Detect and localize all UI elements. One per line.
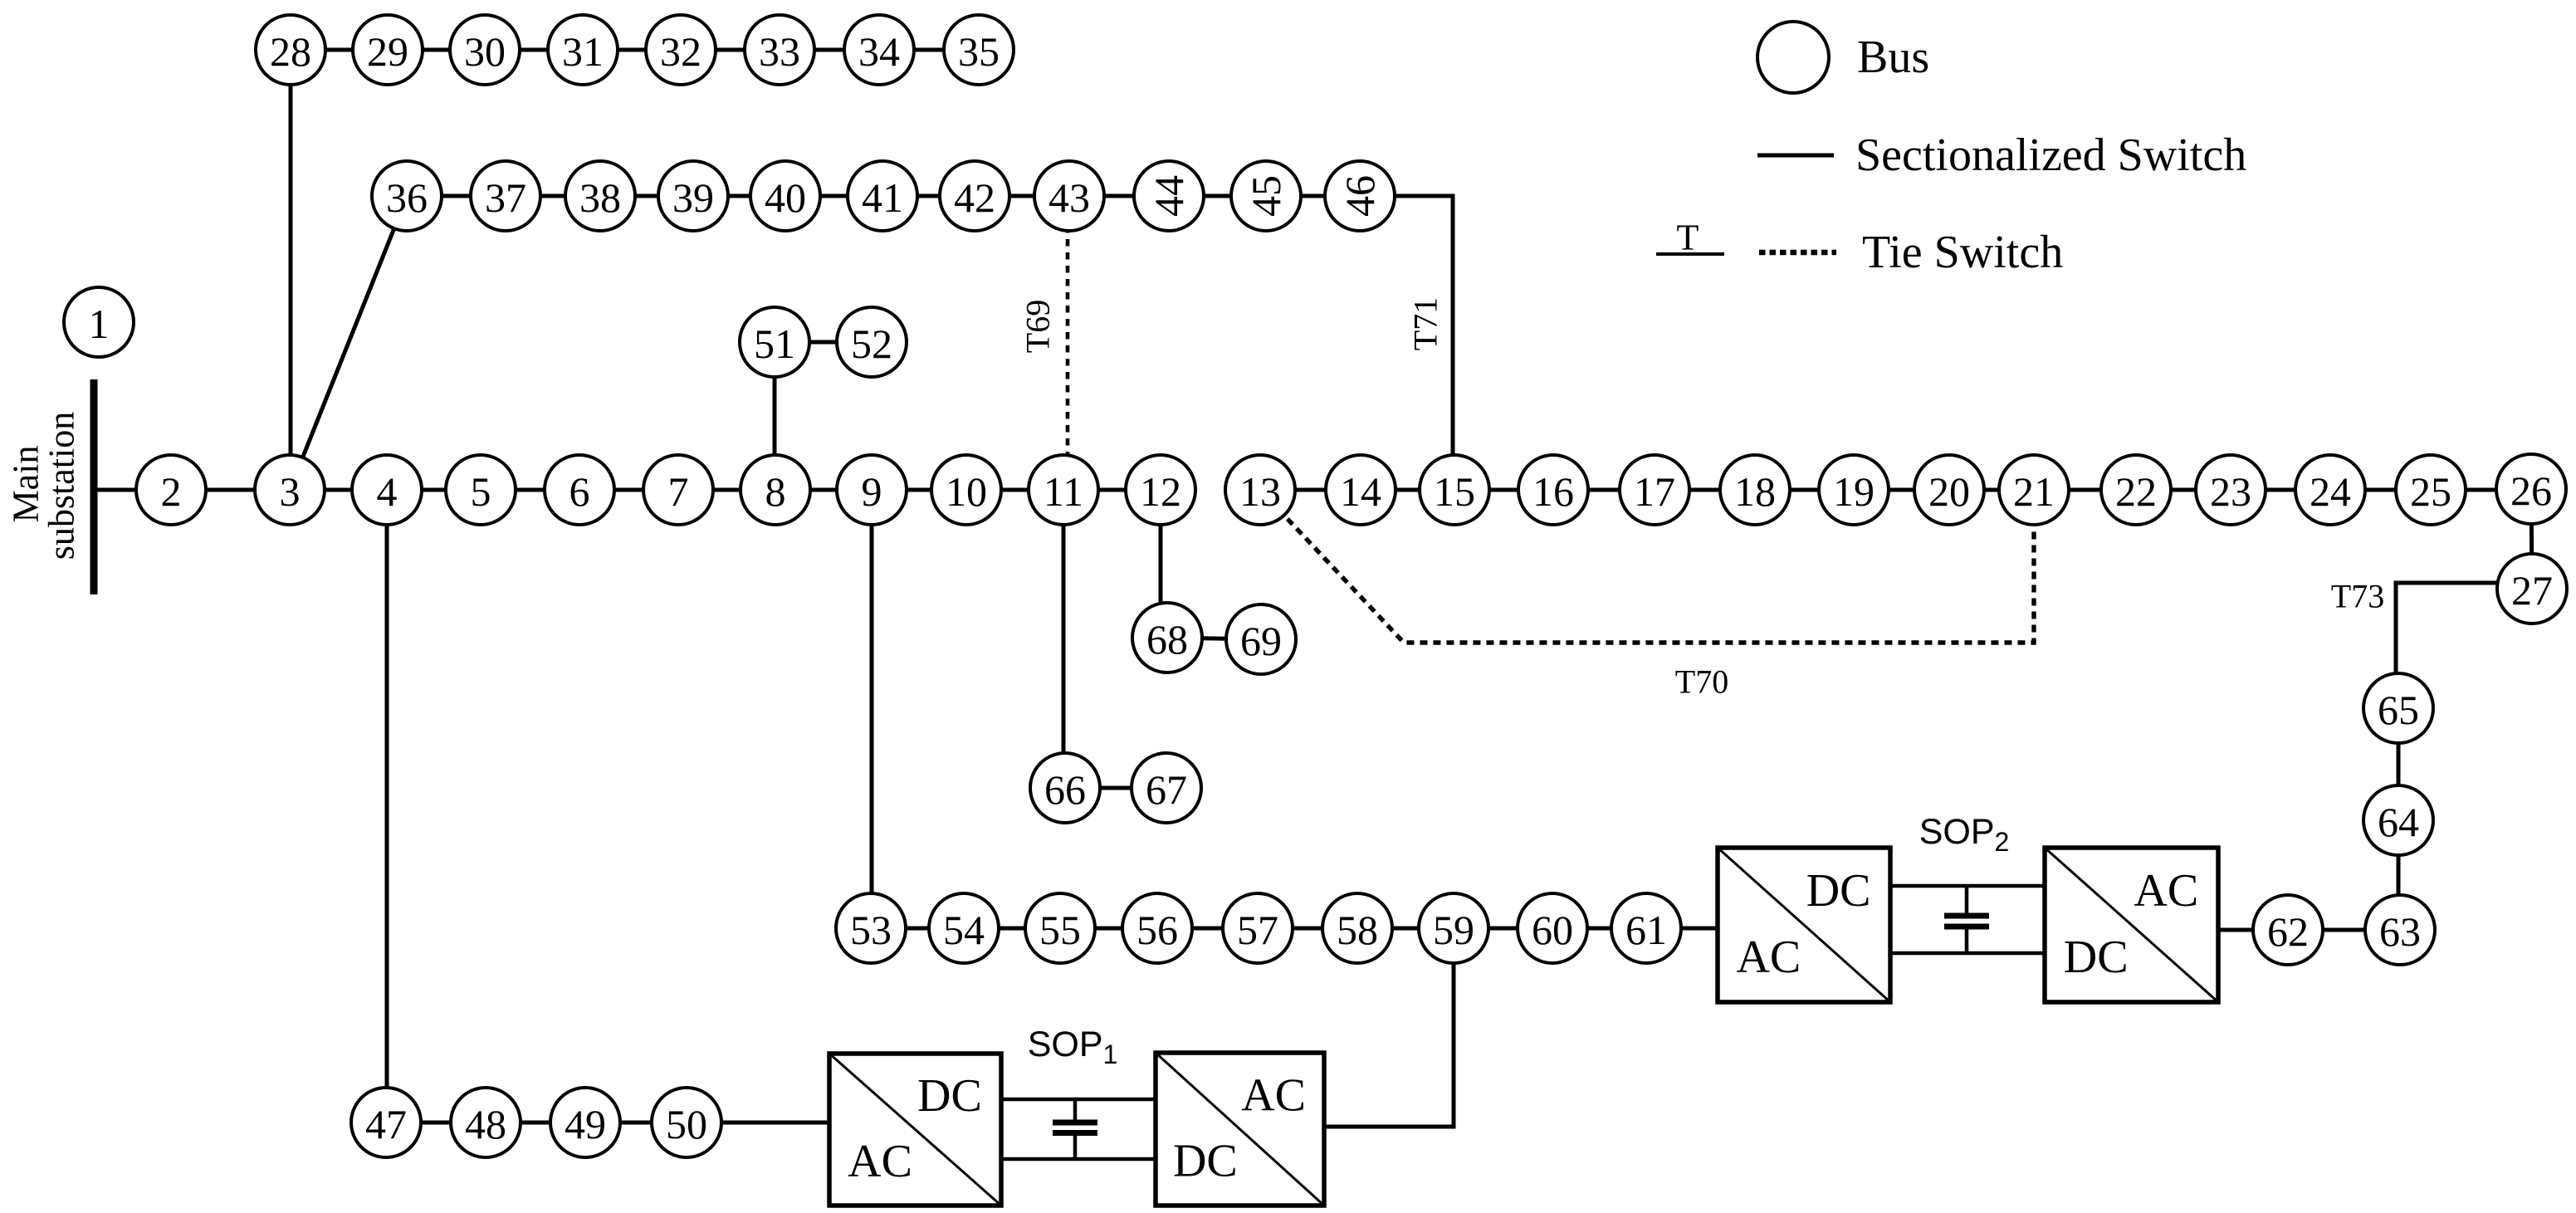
svg-text:T69: T69 (1019, 300, 1057, 353)
bus 65 (2363, 673, 2433, 743)
wire branch bus36-bus46 (407, 194, 1360, 198)
converter SOP2 left AC/DC (1718, 848, 1890, 1002)
bus 14 (1326, 455, 1396, 525)
svg-text:T: T (1677, 218, 1699, 258)
svg-text:35: 35 (958, 28, 1000, 75)
tie switch T70 dashed bus13-bus21 (1260, 490, 2034, 643)
svg-text:2: 2 (161, 468, 182, 515)
svg-text:49: 49 (565, 1101, 606, 1147)
svg-text:54: 54 (943, 907, 985, 953)
bus 42 (940, 161, 1009, 231)
svg-text:DC: DC (2064, 932, 2129, 983)
svg-text:32: 32 (660, 28, 701, 75)
bus 6 (545, 455, 614, 525)
bus 31 (548, 15, 618, 85)
bus 23 (2196, 455, 2266, 525)
bus 18 (1720, 455, 1790, 525)
bus 1 (64, 287, 134, 357)
svg-text:41: 41 (862, 174, 903, 221)
svg-text:9: 9 (862, 468, 882, 515)
bus 48 (451, 1088, 521, 1157)
bus 32 (646, 15, 716, 85)
wire bus28-bus3 vertical (289, 50, 293, 490)
svg-text:44: 44 (1146, 175, 1192, 217)
svg-text:3: 3 (280, 468, 301, 515)
SOP1 dc link capacitor (1073, 1099, 1078, 1120)
bus 20 (1914, 455, 1984, 525)
svg-text:T73: T73 (2331, 578, 2384, 615)
svg-text:30: 30 (464, 28, 506, 75)
bus 59 (1419, 893, 1488, 963)
legend tie switch (1759, 250, 1836, 256)
bus 37 (471, 161, 540, 231)
bus 58 (1322, 893, 1392, 963)
bus 60 (1518, 893, 1587, 963)
svg-text:56: 56 (1136, 907, 1178, 953)
svg-text:68: 68 (1146, 616, 1188, 663)
bus 50 (652, 1088, 721, 1157)
bus 62 (2253, 895, 2323, 965)
bus 19 (1819, 455, 1889, 525)
svg-text:DC: DC (1173, 1136, 1238, 1187)
svg-text:18: 18 (1734, 468, 1776, 515)
SOP2 dc link capacitor (1965, 886, 1969, 913)
svg-text:42: 42 (954, 174, 995, 221)
svg-text:53: 53 (850, 907, 892, 953)
svg-text:57: 57 (1237, 907, 1278, 953)
svg-text:26: 26 (2510, 467, 2552, 514)
wire bus4-bus47 vertical (385, 490, 389, 1123)
svg-text:14: 14 (1340, 468, 1381, 515)
bus 67 (1132, 753, 1201, 823)
svg-text:46: 46 (1337, 175, 1383, 217)
bus 41 (848, 161, 917, 231)
bus 56 (1122, 893, 1192, 963)
wire bus68-bus69 (1167, 638, 1261, 639)
svg-text:AC: AC (2134, 865, 2198, 917)
svg-text:12: 12 (1140, 468, 1181, 515)
svg-text:65: 65 (2378, 687, 2419, 733)
wire bus12-bus68 vertical (1159, 490, 1163, 638)
legend sectionalized switch (1757, 154, 1834, 158)
svg-text:33: 33 (759, 28, 800, 75)
bus 5 (446, 455, 516, 525)
SOP1 dc link top wire (1001, 1098, 1156, 1102)
svg-text:69: 69 (1240, 618, 1282, 664)
wire bus11-bus66 vertical (1062, 490, 1066, 788)
bus 64 (2363, 785, 2433, 855)
svg-text:38: 38 (579, 174, 621, 221)
bus 46 (1325, 161, 1395, 231)
SOP2 dc link bottom wire (1890, 951, 2045, 956)
legend bus symbol (1757, 22, 1829, 93)
svg-text:67: 67 (1146, 766, 1187, 813)
bus 21 (1999, 455, 2069, 525)
wire main feeder bus2-bus12 (93, 488, 1161, 492)
svg-text:36: 36 (386, 174, 428, 221)
bus 34 (844, 15, 914, 85)
svg-text:50: 50 (666, 1101, 707, 1147)
wire bus3-bus36 diagonal (290, 197, 407, 490)
svg-text:6: 6 (569, 468, 590, 515)
bus 27 (2497, 554, 2567, 624)
svg-text:31: 31 (562, 28, 604, 75)
bus 15 (1420, 455, 1489, 525)
svg-text:T70: T70 (1675, 663, 1728, 701)
wire bus8-bus51 vertical (773, 342, 777, 490)
svg-text:AC: AC (1241, 1070, 1306, 1122)
svg-text:58: 58 (1337, 907, 1378, 953)
svg-text:substation: substation (42, 412, 82, 560)
bus 68 (1132, 603, 1202, 673)
svg-text:59: 59 (1433, 907, 1474, 953)
svg-text:40: 40 (765, 174, 806, 221)
svg-text:16: 16 (1532, 468, 1574, 515)
svg-text:45: 45 (1243, 175, 1289, 217)
bus 57 (1223, 893, 1293, 963)
wire bus63-bus64-bus65 vertical (2397, 708, 2401, 930)
svg-text:Sectionalized Switch: Sectionalized Switch (1855, 130, 2246, 181)
svg-text:10: 10 (946, 468, 987, 515)
bus 3 (255, 455, 325, 525)
svg-text:61: 61 (1625, 907, 1667, 953)
SOP2 dc link top wire (1890, 884, 2045, 888)
svg-text:25: 25 (2410, 468, 2451, 515)
wire bus9-bus53 vertical (870, 490, 874, 928)
bus 7 (643, 455, 713, 525)
bus 47 (351, 1088, 421, 1157)
svg-text:AC: AC (848, 1136, 912, 1187)
svg-text:Tie Switch: Tie Switch (1862, 227, 2063, 278)
svg-text:13: 13 (1239, 468, 1281, 515)
converter SOP1 right DC/AC (1156, 1053, 1324, 1206)
bus 26 (2496, 454, 2566, 524)
svg-text:29: 29 (367, 28, 408, 75)
svg-text:60: 60 (1532, 907, 1573, 953)
bus 2 (136, 455, 206, 525)
svg-text:23: 23 (2210, 468, 2251, 515)
svg-text:15: 15 (1434, 468, 1475, 515)
svg-text:17: 17 (1634, 468, 1675, 515)
svg-text:52: 52 (851, 320, 892, 367)
tie switch T69 dashed bus43-bus11 (1066, 199, 1070, 490)
bus 43 (1034, 161, 1104, 231)
bus 22 (2101, 455, 2171, 525)
svg-text:39: 39 (672, 174, 714, 221)
svg-text:34: 34 (858, 28, 900, 75)
svg-text:4: 4 (377, 468, 398, 515)
wire SOP1 right converter to bus59 (1324, 928, 1454, 1127)
bus 9 (837, 455, 907, 525)
wire bus66-bus67 (1065, 786, 1166, 790)
svg-text:1: 1 (89, 301, 110, 347)
bus 4 (352, 455, 422, 525)
wire branch bus28-bus35 (291, 48, 979, 52)
bus 45 (1231, 161, 1301, 231)
bus 40 (750, 161, 820, 231)
bus 52 (837, 307, 907, 377)
svg-text:37: 37 (485, 174, 526, 221)
bus 53 (836, 893, 906, 963)
svg-text:62: 62 (2267, 908, 2309, 955)
wire bus26-bus27 (2531, 489, 2532, 589)
wire bus51-bus52 (775, 340, 872, 345)
svg-text:48: 48 (465, 1101, 506, 1147)
bus 29 (353, 15, 423, 85)
svg-text:22: 22 (2115, 468, 2157, 515)
bus 13 (1225, 455, 1295, 525)
bus 66 (1030, 753, 1100, 823)
bus 25 (2396, 455, 2466, 525)
bus 49 (550, 1088, 620, 1157)
bus 35 (944, 15, 1014, 85)
svg-text:55: 55 (1039, 907, 1081, 953)
svg-text:24: 24 (2310, 468, 2351, 515)
bus 36 (372, 161, 442, 231)
svg-text:DC: DC (917, 1070, 982, 1122)
bus 33 (745, 15, 814, 85)
svg-text:21: 21 (2013, 468, 2055, 515)
svg-text:63: 63 (2379, 908, 2421, 955)
svg-text:11: 11 (1044, 468, 1083, 515)
main substation bar (90, 379, 98, 594)
svg-text:66: 66 (1044, 766, 1086, 813)
svg-text:Main: Main (6, 446, 46, 523)
bus 11 (1029, 455, 1098, 525)
bus 44 (1134, 161, 1204, 231)
bus 8 (741, 455, 810, 525)
svg-text:5: 5 (471, 468, 491, 515)
bus 54 (929, 893, 999, 963)
SOP1 dc link bottom wire (1001, 1157, 1156, 1162)
bus 63 (2365, 895, 2435, 965)
bus 38 (565, 161, 635, 231)
bus 51 (740, 307, 809, 377)
svg-text:64: 64 (2378, 799, 2419, 845)
wire bus47-bus50 to SOP1 (386, 1121, 829, 1125)
svg-text:28: 28 (270, 28, 311, 75)
bus 30 (450, 15, 520, 85)
converter SOP1 left AC/DC (829, 1054, 1001, 1206)
tie switch T73 bus27-bus65 (2396, 583, 2499, 708)
bus 12 (1126, 455, 1195, 525)
svg-text:20: 20 (1928, 468, 1970, 515)
svg-text:T71: T71 (1407, 297, 1444, 350)
bus 69 (1226, 604, 1296, 674)
svg-text:DC: DC (1806, 865, 1871, 917)
bus 28 (256, 15, 325, 85)
bus 16 (1518, 455, 1588, 525)
bus 24 (2295, 455, 2365, 525)
svg-text:51: 51 (754, 320, 795, 367)
bus 61 (1611, 893, 1681, 963)
bus 55 (1025, 893, 1095, 963)
svg-text:43: 43 (1048, 174, 1090, 221)
svg-text:27: 27 (2511, 567, 2553, 614)
wire SOP2 right converter to bus62-bus63 (2218, 928, 2400, 932)
svg-text:8: 8 (765, 468, 786, 515)
wire bus53-bus61 to SOP2 (871, 927, 1718, 931)
svg-text:Bus: Bus (1857, 32, 1929, 83)
bus 39 (658, 161, 728, 231)
svg-text:AC: AC (1736, 932, 1801, 983)
wire main feeder bus13-bus26 (1260, 488, 2531, 492)
svg-text:7: 7 (668, 468, 689, 515)
converter SOP2 right DC/AC (2045, 848, 2218, 1002)
svg-text:SOP1: SOP1 (1028, 1025, 1118, 1069)
bus 10 (931, 455, 1001, 525)
svg-text:47: 47 (365, 1101, 407, 1147)
svg-text:19: 19 (1833, 468, 1875, 515)
tie switch T71 bus46-bus15 (1360, 196, 1453, 490)
svg-text:SOP2: SOP2 (1919, 812, 2010, 857)
bus 17 (1620, 455, 1689, 525)
